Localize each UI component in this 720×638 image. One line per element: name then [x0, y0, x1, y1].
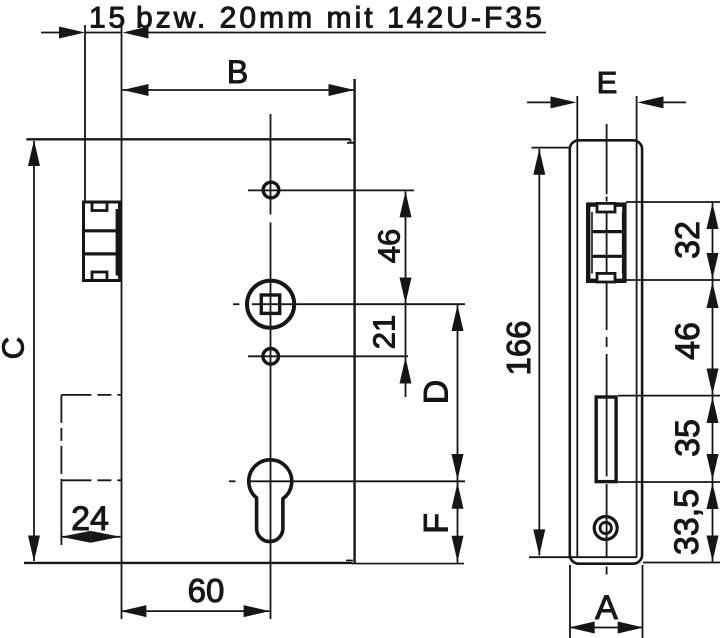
- latch front divider upper: [84, 229, 118, 232]
- dimension 21 arrow up (below line): [400, 358, 412, 384]
- side inner bottom line with 166 extension: [529, 556, 637, 558]
- svg-text:35: 35: [669, 419, 707, 457]
- dimension E arrow right (points left): [638, 96, 664, 108]
- dimension D arrow up: [452, 305, 464, 331]
- latch side divider upper: [592, 230, 625, 233]
- dimension 60 line: [121, 610, 269, 612]
- screw hole side view outer: [594, 517, 617, 540]
- dimension B line: [123, 89, 355, 91]
- dimension C arrow up: [28, 140, 40, 166]
- 24 extension solid below: [60, 481, 62, 545]
- latch front dark bar at faceplate: [116, 209, 120, 276]
- hidden bolt dashed top: [61, 394, 121, 396]
- dimension 166 arrow up: [533, 149, 545, 175]
- dim 46 arrow up: [707, 282, 719, 308]
- side inner wall left / E extension: [576, 96, 578, 557]
- dimension 166 line: [538, 149, 540, 556]
- A extension left: [569, 565, 571, 638]
- side inner wall right / E extension: [636, 96, 638, 557]
- dimension D/F line: [457, 305, 459, 563]
- lock case front view: top edge: [26, 138, 350, 140]
- dimension 15 arrow right (points left, tip at case edge): [123, 27, 149, 39]
- lower small hole: [263, 349, 279, 365]
- svg-text:E: E: [597, 65, 618, 100]
- svg-text:60: 60: [188, 572, 225, 609]
- upper small hole: [263, 182, 279, 198]
- latch side inner vertical right: [622, 212, 624, 274]
- dimension 15 line between extensions: [85, 32, 123, 34]
- dimension E arrow left (points right): [551, 96, 577, 108]
- dim 33,5 arrow up: [707, 483, 719, 509]
- svg-text:32: 32: [669, 221, 707, 259]
- case bottom-right corner step: [346, 559, 353, 561]
- latch side bottom notch: [597, 273, 615, 282]
- hidden bolt dashed vertical: [60, 395, 62, 481]
- dimension 46 arrow down: [400, 278, 412, 304]
- svg-text:46: 46: [669, 322, 707, 360]
- euro cylinder hole: [249, 460, 292, 542]
- dimension C line: [33, 141, 35, 561]
- svg-text:46: 46: [372, 229, 407, 263]
- latch side top notch: [597, 203, 615, 212]
- svg-text:166: 166: [500, 320, 537, 375]
- right dims extension y=562.5: [643, 562, 720, 564]
- dimension 60 arrow right: [244, 605, 270, 617]
- dimension A arrow left: [569, 622, 595, 634]
- case top-right corner step: [347, 139, 355, 143]
- dimension F arrow up: [452, 483, 464, 509]
- bottom extension to F: [352, 563, 464, 565]
- dimension B arrow left: [123, 84, 149, 96]
- dimension 15 arrow left (points right, tip at faceplate line): [59, 27, 85, 39]
- svg-text:F: F: [418, 513, 456, 534]
- svg-text:C: C: [0, 337, 31, 359]
- dimension C arrow down: [28, 536, 40, 562]
- 166 top extension: [531, 147, 571, 149]
- case left edge with extensions: [121, 25, 123, 619]
- dim 33,5 arrow down: [707, 536, 719, 562]
- right dims extension y=280: [626, 279, 720, 281]
- dim 32 arrow up: [707, 203, 719, 229]
- bolt cutout side view: [596, 397, 616, 482]
- latch front top notch: [92, 202, 107, 210]
- side centerline: [606, 124, 608, 194]
- dim 35 arrow up: [707, 397, 719, 423]
- latch side inner vertical left: [591, 212, 593, 274]
- right dims extension y=482: [618, 481, 720, 483]
- case right edge with B extension: [353, 79, 355, 563]
- screw hole side view inner: [600, 522, 611, 533]
- dimension 15 line left tail: [41, 32, 60, 34]
- case bottom edge: [24, 562, 353, 564]
- A extension right: [642, 565, 644, 638]
- latch front divider lower: [84, 252, 118, 255]
- dimension D arrow down: [452, 454, 464, 480]
- right dims vertical line: [712, 203, 714, 563]
- svg-text:B: B: [227, 54, 248, 90]
- svg-text:33,5: 33,5: [668, 489, 706, 555]
- faceplate extension line x=85: [84, 25, 86, 202]
- spindle follower circle: [247, 281, 294, 328]
- dimension E left tail: [527, 101, 553, 103]
- follower centerline horizontal (dash + line): [233, 303, 240, 305]
- svg-text:bzw. 20mm mit 142U-F35: bzw. 20mm mit 142U-F35: [136, 2, 545, 35]
- dimension F arrow down: [452, 536, 464, 562]
- dimension 46 arrow up: [400, 191, 412, 217]
- dimension 24 line: [61, 536, 120, 538]
- dimension 21 line: [405, 304, 407, 398]
- lower hole centerline horizontal: [248, 355, 408, 357]
- vertical centerline front view: [270, 114, 272, 215]
- dim 46 arrow down: [707, 369, 719, 395]
- cylinder centerline horizontal (dash + line): [229, 480, 236, 482]
- dimension A arrow right: [618, 622, 644, 634]
- svg-text:D: D: [418, 380, 456, 405]
- svg-text:A: A: [595, 589, 618, 627]
- svg-text:21: 21: [367, 315, 402, 349]
- latch side divider lower: [592, 255, 625, 258]
- latch bolt side view outline: [588, 205, 624, 281]
- side view outer outline: [570, 140, 642, 563]
- hidden bolt dashed bottom: [61, 479, 121, 481]
- dimension 166 arrow down: [533, 529, 545, 555]
- dimension A line: [570, 627, 643, 629]
- dim 32 arrow down: [707, 253, 719, 279]
- latch front bottom notch: [92, 272, 107, 280]
- dim 35 arrow down: [707, 454, 719, 480]
- spindle square hole: [261, 295, 279, 313]
- dimension 24 arrow right: [91, 531, 121, 543]
- dimension B arrow right: [329, 84, 355, 96]
- dimension 60 arrow left: [120, 605, 146, 617]
- dimension 46 line: [405, 191, 407, 303]
- dimension E right tail: [664, 101, 687, 103]
- dimension line under text to right: [149, 32, 547, 34]
- latch bolt front view outline: [84, 202, 120, 281]
- upper hole centerline horizontal: [248, 189, 414, 191]
- right dims extension y=395.6: [618, 395, 720, 397]
- dimension 24 arrow left: [61, 531, 91, 543]
- right dims extension y=202: [626, 201, 720, 203]
